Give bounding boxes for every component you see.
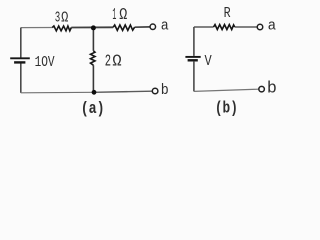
svg-text:1: 1 bbox=[112, 5, 116, 24]
svg-text:a: a bbox=[161, 17, 169, 34]
svg-text:b: b bbox=[267, 78, 277, 97]
svg-text:1OV: 1OV bbox=[35, 54, 55, 71]
svg-text:Ω: Ω bbox=[119, 5, 127, 24]
svg-text:2: 2 bbox=[105, 51, 111, 70]
svg-text:(b): (b) bbox=[215, 98, 238, 117]
svg-text:Ω: Ω bbox=[61, 11, 68, 27]
svg-text:3: 3 bbox=[55, 11, 61, 27]
svg-text:a: a bbox=[268, 17, 277, 34]
svg-text:Ω: Ω bbox=[112, 51, 121, 70]
svg-text:(a): (a) bbox=[81, 99, 105, 118]
svg-text:V: V bbox=[205, 54, 212, 70]
svg-text:b: b bbox=[161, 82, 169, 99]
svg-text:R: R bbox=[224, 6, 231, 22]
